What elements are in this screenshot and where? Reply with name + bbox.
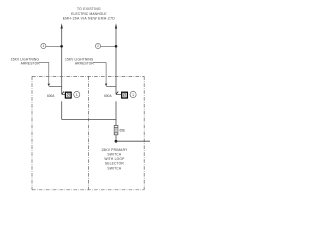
wire: leader to left arrestor tap <box>39 63 49 84</box>
enclosure boundary (dash-dot) <box>32 76 144 189</box>
svg-text:ARRESTOR: ARRESTOR <box>21 62 41 66</box>
fuse box (right) <box>122 92 128 98</box>
node: load junction <box>115 140 118 143</box>
wire: left feeder to manhole (arrow up) <box>61 23 63 28</box>
svg-text:1: 1 <box>76 93 78 97</box>
wire: left switch load side down to loop bus <box>61 101 63 119</box>
wire: feed continuing right <box>116 140 150 142</box>
label: 15KV lightning arrestor (left) <box>11 58 41 66</box>
svg-text:WITH LOOP: WITH LOOP <box>104 157 125 161</box>
switch blade (left) <box>62 92 64 95</box>
fuse F1 (65E) <box>114 126 118 135</box>
node: cable tag 1 (left) <box>41 43 63 48</box>
note circle 1 (left switch) <box>74 91 80 97</box>
svg-text:65E: 65E <box>120 129 126 133</box>
svg-text:SELECTOR: SELECTOR <box>105 162 125 166</box>
note circle 1 (right switch) <box>130 91 136 97</box>
wire: right arrestor tap <box>106 85 116 87</box>
switch blade (right) <box>116 92 118 95</box>
svg-text:TO EXISTING: TO EXISTING <box>77 7 101 11</box>
svg-text:600A: 600A <box>47 94 55 98</box>
node: destination note text <box>63 7 116 21</box>
svg-text:SWITCH: SWITCH <box>107 153 122 157</box>
wire: right switch load side down to fuse <box>115 101 117 125</box>
wire: right feeder to manhole (arrow up) <box>115 23 117 28</box>
svg-text:1: 1 <box>132 93 134 97</box>
node: cable tag 1 (right) <box>95 43 117 48</box>
bay divider (dash-dot) <box>88 76 90 189</box>
wire: fuse to load junction <box>115 135 117 141</box>
svg-text:1: 1 <box>43 44 45 48</box>
svg-text:SWITCH: SWITCH <box>107 166 122 170</box>
wire: leader to right arrestor tap <box>93 63 106 84</box>
wire: loop bus <box>62 119 116 121</box>
svg-text:1: 1 <box>97 44 99 48</box>
svg-text:ELECTRIC MANHOLE: ELECTRIC MANHOLE <box>71 12 107 16</box>
svg-text:ARRESTOR: ARRESTOR <box>75 62 95 66</box>
svg-text:15KV PRIMARY: 15KV PRIMARY <box>101 148 128 152</box>
fuse box (left) <box>65 92 71 98</box>
label: 15KV lightning arrestor (right) <box>65 58 94 66</box>
label: 15KV primary switch with loop selector switch <box>101 148 128 170</box>
wire: left arrestor tap <box>49 85 62 87</box>
svg-text:EMH-26A VIA NEW EMH-27D: EMH-26A VIA NEW EMH-27D <box>63 17 116 21</box>
svg-text:600A: 600A <box>104 94 112 98</box>
